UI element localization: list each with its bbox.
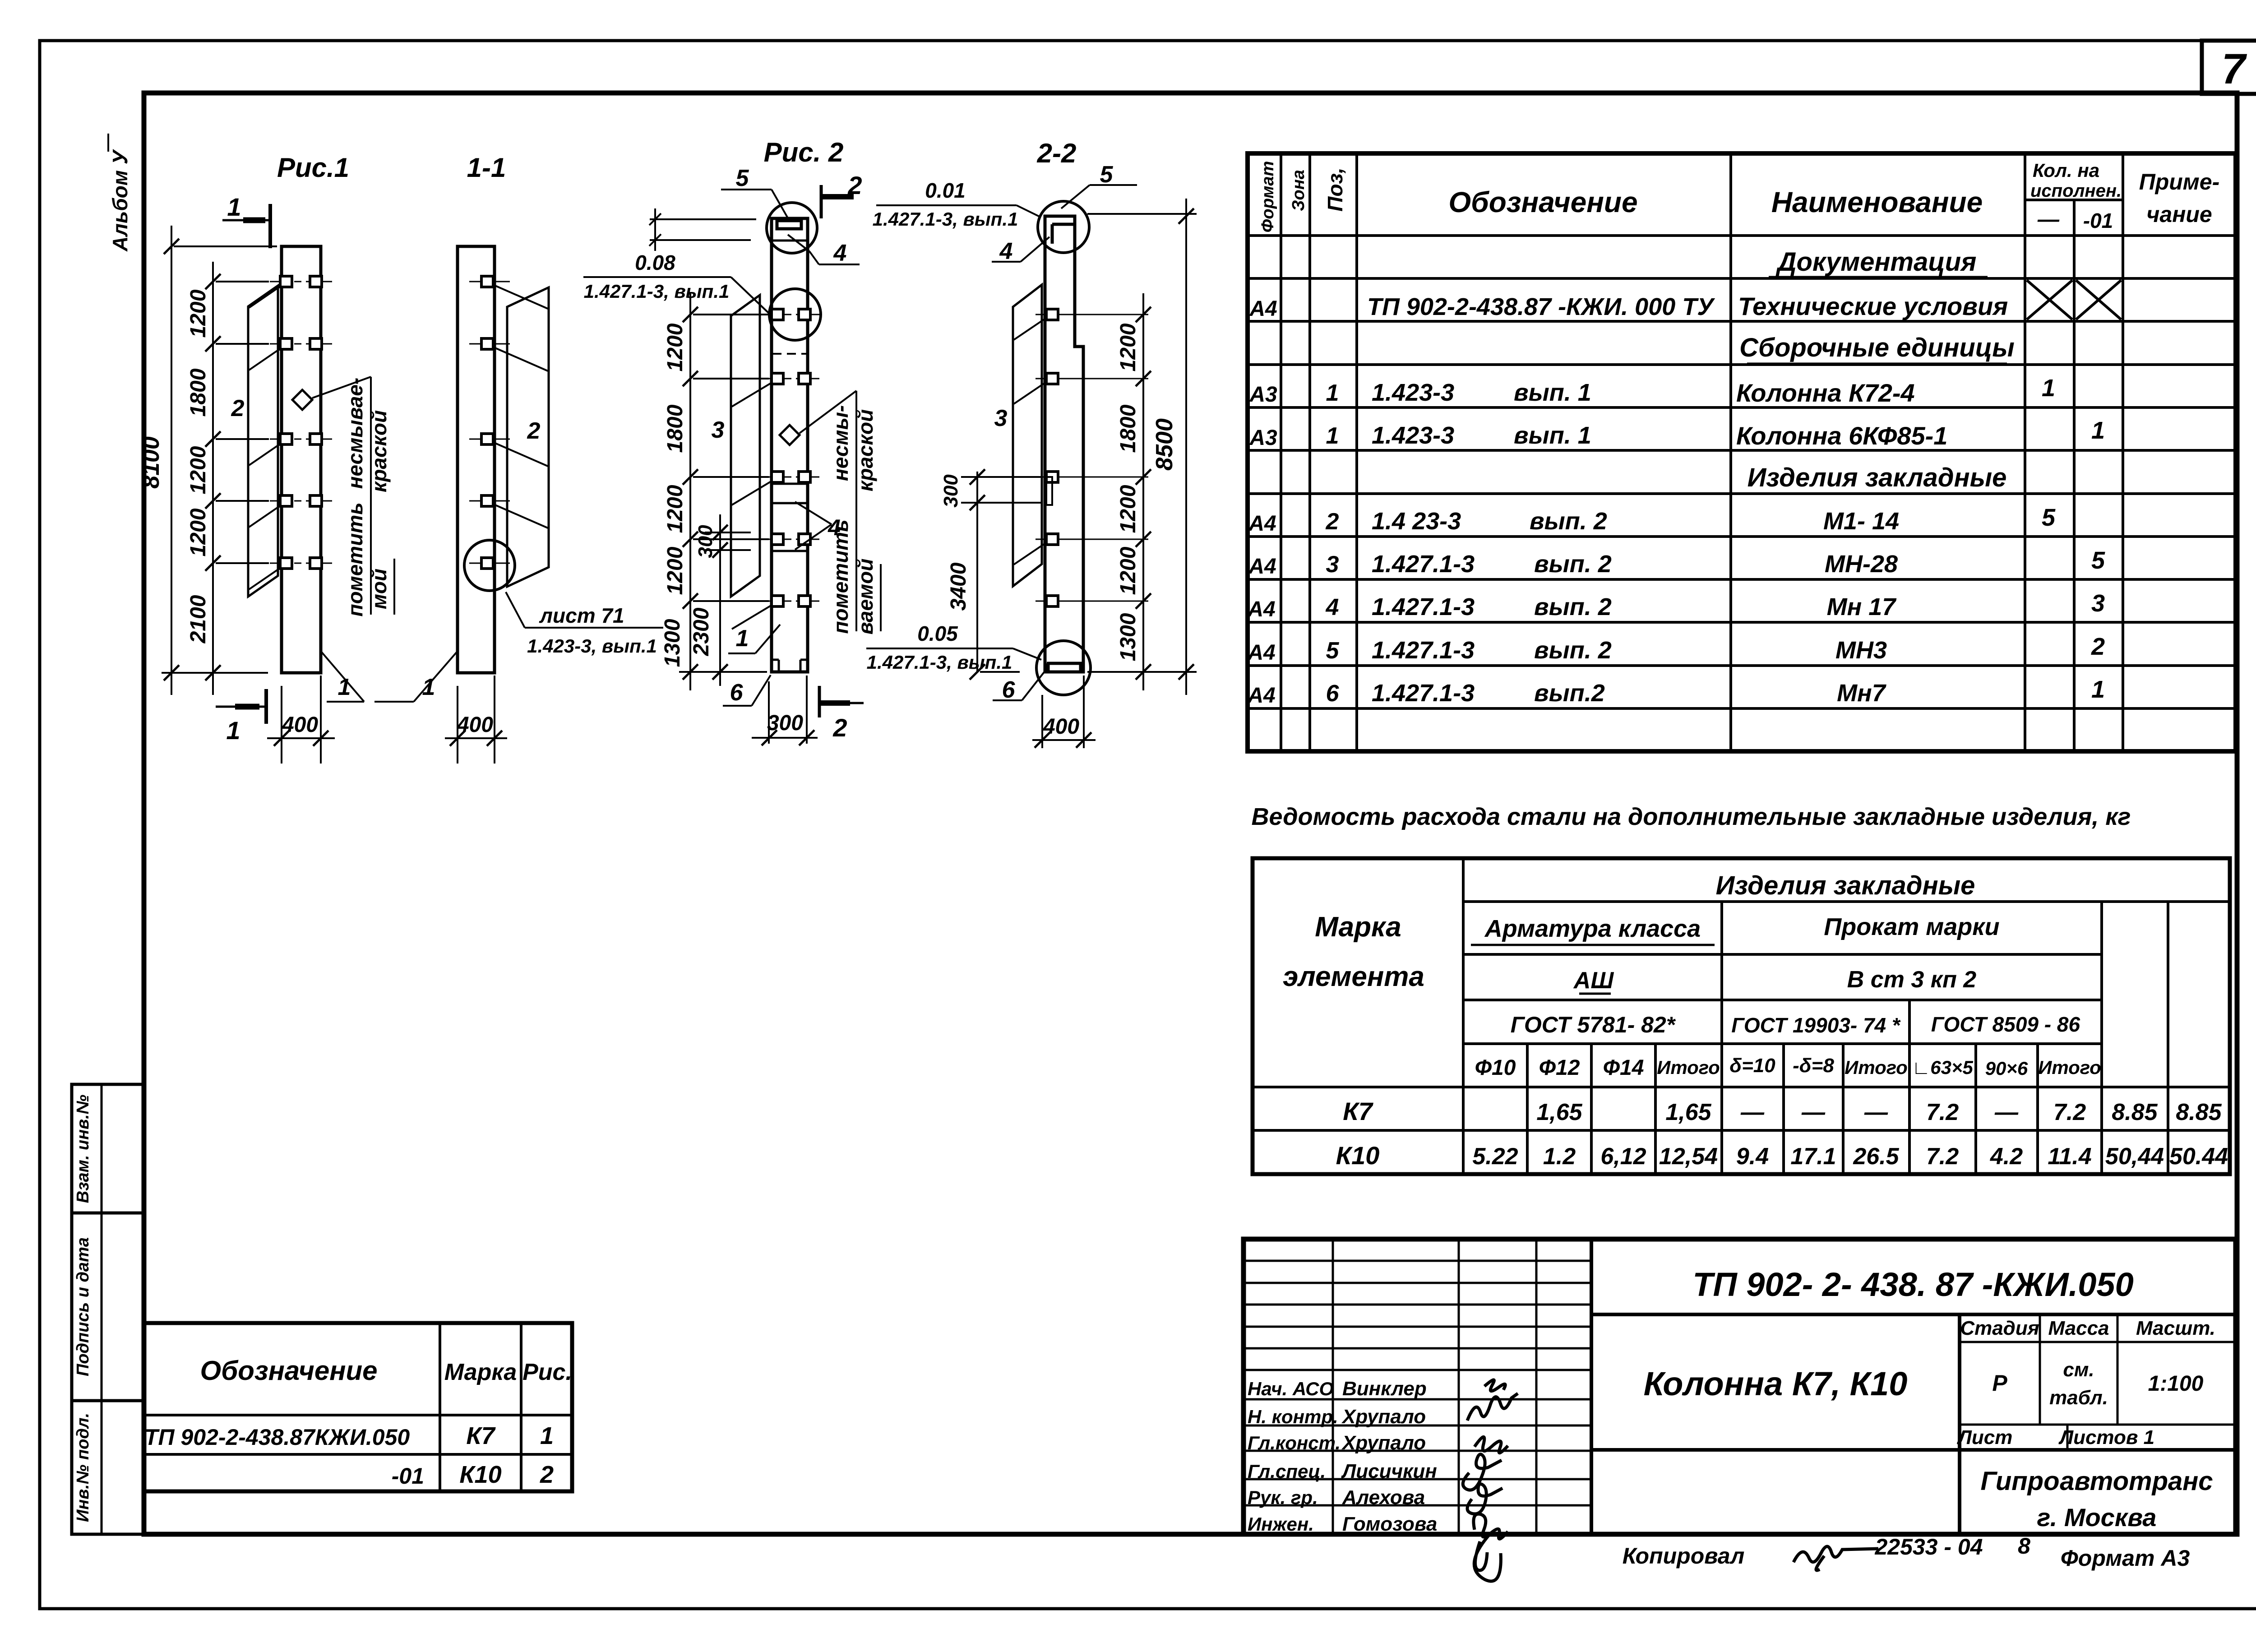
svg-text:∟63×5: ∟63×5: [1912, 1057, 1973, 1078]
svg-text:Гипроавтотранс: Гипроавтотранс: [1980, 1467, 2213, 1496]
svg-text:несмы-: несмы-: [829, 405, 852, 481]
svg-text:Лист: Лист: [1957, 1426, 2013, 1448]
svg-text:К7: К7: [1343, 1097, 1373, 1125]
svg-text:400: 400: [457, 713, 493, 737]
embed plate row 3 fig.2-2: [1036, 477, 1148, 478]
leader to strip (1-1): [494, 504, 548, 528]
tb row: [1244, 1504, 1591, 1507]
embed plate row 1 fig.2-2: [1036, 314, 1148, 315]
big flourish below stamp: [1474, 1535, 1501, 1581]
svg-text:5: 5: [1326, 638, 1340, 664]
tb row: [1244, 1326, 1591, 1328]
svg-text:вып. 1: вып. 1: [1514, 422, 1591, 449]
tb row: [1244, 1478, 1591, 1481]
underline note line1 fig.1: [370, 377, 372, 615]
svg-text:А4: А4: [1249, 297, 1277, 321]
plate bottom line fig.2: [772, 240, 807, 242]
embed plate row 5 fig.1-1: [469, 563, 510, 564]
svg-text:вып. 2: вып. 2: [1534, 593, 1612, 620]
signature 1: [1484, 1380, 1505, 1391]
svg-text:3: 3: [994, 405, 1008, 431]
embed plate row 1 fig.1: [270, 281, 289, 282]
embed plate row 3 fig.2: [760, 477, 779, 478]
svg-text:—: —: [1740, 1099, 1765, 1125]
spec row line: [1248, 535, 2236, 538]
svg-text:1:100: 1:100: [2148, 1372, 2204, 1396]
leader to strip (1-1): [494, 347, 548, 371]
svg-text:Инв.№ подл.: Инв.№ подл.: [74, 1413, 92, 1522]
spec row line: [1248, 492, 2236, 495]
svg-text:1.427.1-3: 1.427.1-3: [1372, 637, 1475, 664]
svg-text:2: 2: [2091, 633, 2105, 660]
signature 6: [1474, 1514, 1508, 1570]
sheet number box: [2202, 41, 2256, 94]
paint diamond fig.2: [780, 425, 800, 445]
dim 300 fig.2 bottom: [768, 681, 770, 744]
column outline (fig.1-1): [458, 246, 495, 673]
cross1: [2027, 280, 2072, 319]
detail circle fig.2 row1: [769, 289, 821, 340]
marking strip 2 fig.1: [248, 286, 278, 597]
leader label 1 bottom fig.1-1: [414, 651, 458, 702]
svg-text:9.4: 9.4: [1736, 1143, 1769, 1170]
svg-text:Рук. гр.: Рук. гр.: [1248, 1487, 1318, 1508]
svg-text:Хрупало: Хрупало: [1341, 1432, 1426, 1454]
leader to strip (fig.2): [732, 481, 772, 505]
spec col line: [2073, 200, 2076, 751]
svg-text:Мн7: Мн7: [1837, 680, 1887, 707]
svg-text:Колонна К72-4: Колонна К72-4: [1736, 379, 1915, 407]
svg-text:Хрупало: Хрупало: [1341, 1406, 1426, 1428]
embed plate row 2 fig.2-2: [1036, 378, 1148, 379]
svg-text:Альбом У: Альбом У: [108, 148, 132, 252]
svg-text:50.44: 50.44: [2169, 1143, 2228, 1170]
svg-text:Н. контр.: Н. контр.: [1248, 1406, 1338, 1427]
detail circle fig.2-2 bottom: [1036, 641, 1091, 695]
svg-text:5: 5: [1100, 162, 1114, 188]
marking strip 3 fig.2-2: [1013, 285, 1042, 586]
embed plate row 5 fig.2: [760, 601, 779, 602]
svg-text:1800: 1800: [1116, 404, 1140, 453]
svg-text:ТП 902- 2- 438. 87 -КЖИ.050: ТП 902- 2- 438. 87 -КЖИ.050: [1692, 1266, 2133, 1303]
leader to strip: [249, 286, 281, 308]
svg-text:26.5: 26.5: [1853, 1143, 1899, 1170]
leader to strip (1-1): [494, 443, 548, 466]
svg-text:АШ: АШ: [1573, 967, 1614, 994]
svg-text:ТП 902-2-438.87КЖИ.050: ТП 902-2-438.87КЖИ.050: [144, 1425, 410, 1450]
svg-text:1: 1: [1326, 423, 1339, 449]
svg-text:Рис. 2: Рис. 2: [764, 137, 844, 167]
svg-text:6: 6: [730, 680, 744, 706]
svg-text:8.85: 8.85: [2176, 1099, 2222, 1125]
svg-text:лист 71: лист 71: [539, 604, 624, 627]
svg-text:Взам. инв.№: Взам. инв.№: [74, 1095, 92, 1203]
svg-text:8: 8: [2018, 1533, 2030, 1559]
spec col line: [1308, 153, 1311, 751]
svg-text:ТП 902-2-438.87 -КЖИ. 000 ТУ: ТП 902-2-438.87 -КЖИ. 000 ТУ: [1367, 293, 1715, 320]
svg-text:1: 1: [227, 193, 241, 221]
tb row: [1244, 1425, 1591, 1427]
svg-text:чание: чание: [2146, 202, 2212, 227]
svg-text:5: 5: [2091, 547, 2105, 574]
left margin stamp boxes: [72, 1084, 144, 1213]
section mark 1 bottom: [216, 706, 265, 708]
svg-text:3: 3: [2091, 590, 2105, 617]
detail circle fig.1-1: [464, 540, 515, 591]
section mark 2 bottom: [818, 686, 821, 717]
svg-text:400: 400: [282, 713, 318, 737]
svg-text:1.427.1-3, вып.1: 1.427.1-3, вып.1: [873, 208, 1018, 230]
svg-text:2-2: 2-2: [1037, 138, 1077, 168]
svg-text:1,65: 1,65: [1665, 1099, 1711, 1125]
svg-text:Арматура класса: Арматура класса: [1484, 915, 1701, 942]
svg-text:Обозначение: Обозначение: [200, 1356, 377, 1386]
tb row: [1244, 1450, 1591, 1452]
specification table frame: [1248, 153, 2236, 751]
svg-text:2300: 2300: [689, 607, 713, 656]
svg-text:МН3: МН3: [1835, 637, 1887, 664]
copy signature: [1794, 1546, 1878, 1570]
svg-text:300: 300: [767, 711, 803, 735]
spec col line: [1280, 153, 1282, 751]
spec row line: [1248, 621, 2236, 624]
svg-text:1.2: 1.2: [1543, 1143, 1576, 1170]
svg-text:Нач. АСО: Нач. АСО: [1248, 1378, 1334, 1399]
svg-text:Гл.конст.: Гл.конст.: [1248, 1432, 1341, 1453]
svg-text:1.427.1-3: 1.427.1-3: [1372, 551, 1475, 578]
svg-text:2100: 2100: [186, 595, 210, 643]
svg-text:1: 1: [1326, 380, 1339, 406]
svg-text:—: —: [2037, 208, 2060, 231]
svg-text:1300: 1300: [1116, 613, 1140, 661]
svg-text:Изделия закладные: Изделия закладные: [1716, 871, 1975, 900]
signature 4: [1463, 1454, 1502, 1490]
top notch fig.2-2: [1052, 223, 1076, 226]
svg-text:7.2: 7.2: [1926, 1099, 1959, 1125]
svg-text:М1- 14: М1- 14: [1823, 508, 1899, 535]
spec col line: [2024, 153, 2026, 751]
tb divider right part: [1958, 1314, 1961, 1534]
tb row: [1244, 1347, 1591, 1350]
svg-text:Марка: Марка: [444, 1359, 517, 1385]
svg-text:5.22: 5.22: [1472, 1143, 1518, 1170]
svg-text:Наименование: Наименование: [1771, 186, 1983, 218]
marking strip 2 fig.1-1: [507, 287, 549, 587]
svg-text:Итого: Итого: [1657, 1057, 1720, 1078]
svg-text:17.1: 17.1: [1790, 1143, 1836, 1170]
svg-text:1800: 1800: [663, 404, 687, 453]
svg-text:Рис.1: Рис.1: [277, 153, 349, 183]
dim chain fig.2-2: [1142, 293, 1144, 690]
svg-text:1: 1: [226, 716, 240, 745]
svg-text:12,54: 12,54: [1659, 1143, 1718, 1170]
svg-text:8.85: 8.85: [2112, 1099, 2158, 1125]
svg-text:1200: 1200: [1116, 546, 1140, 595]
svg-text:1200: 1200: [1116, 485, 1140, 533]
svg-text:ГОСТ 19903- 74 *: ГОСТ 19903- 74 *: [1731, 1013, 1901, 1037]
svg-text:4: 4: [1326, 594, 1339, 620]
svg-text:Технические условия: Технические условия: [1738, 292, 2008, 320]
dim chain fig.2: [689, 293, 691, 690]
dim 400 fig.1: [281, 686, 282, 764]
svg-text:Ведомость расхода стали на: Ведомость расхода стали на дополнительны…: [1252, 803, 2131, 830]
svg-text:5: 5: [2042, 504, 2056, 531]
svg-text:табл.: табл.: [2049, 1387, 2108, 1409]
leader to strip (fig.2-2): [1014, 382, 1046, 404]
signature 2: [1467, 1393, 1518, 1421]
signature 3: [1475, 1437, 1508, 1453]
svg-text:Ф12: Ф12: [1539, 1056, 1580, 1080]
spec row line: [1248, 363, 2236, 366]
spec col line: [1729, 153, 1732, 751]
svg-text:1200: 1200: [663, 323, 687, 371]
spec col line: [1355, 153, 1358, 751]
tb row: [1244, 1260, 1591, 1262]
leader to strip (fig.2-2): [1014, 543, 1046, 565]
svg-text:1200: 1200: [663, 485, 687, 533]
svg-text:7.2: 7.2: [1926, 1143, 1959, 1170]
svg-text:2: 2: [832, 713, 847, 742]
svg-text:1: 1: [338, 674, 351, 700]
leader 0.08 to circle: [731, 277, 770, 314]
underline note line1 fig.2: [855, 391, 857, 631]
svg-text:А4: А4: [1247, 641, 1275, 665]
svg-text:Поз,: Поз,: [1323, 167, 1347, 211]
svg-text:Колонна 6КФ85-1: Колонна 6КФ85-1: [1736, 421, 1947, 450]
svg-text:2: 2: [527, 418, 541, 444]
leader from diamond fig.2: [800, 391, 856, 433]
svg-text:А3: А3: [1249, 426, 1277, 450]
svg-text:Документация: Документация: [1775, 247, 1977, 277]
svg-text:2: 2: [540, 1461, 554, 1488]
section mark 1 top: [222, 219, 272, 222]
mini chain fig.2 top: [654, 208, 656, 251]
hidden step line fig.2: [772, 353, 807, 355]
svg-text:Подпись и дата: Подпись и дата: [74, 1237, 92, 1376]
svg-text:В ст 3 кп 2: В ст 3 кп 2: [1847, 967, 1977, 993]
doc number cell: [1591, 1313, 2236, 1316]
svg-text:Итого: Итого: [1845, 1057, 1908, 1078]
svg-text:1.423-3: 1.423-3: [1372, 379, 1454, 406]
svg-text:Прокат марки: Прокат марки: [1824, 913, 1999, 940]
spec row line: [1248, 406, 2236, 409]
embed plate row 3 fig.1: [270, 439, 289, 440]
svg-text:300: 300: [694, 525, 717, 558]
embed plate row 4 fig.2-2: [1036, 539, 1148, 540]
svg-text:МН-28: МН-28: [1825, 551, 1898, 578]
svg-text:вып. 2: вып. 2: [1530, 508, 1607, 535]
cross2: [2076, 280, 2121, 319]
embed plate row 1 fig.1-1: [469, 281, 510, 282]
column K10 outline (fig.2): [772, 218, 808, 672]
svg-text:Кол. на: Кол. на: [2033, 160, 2099, 181]
spec row line: [1248, 664, 2236, 667]
embed plate row 2 fig.2: [760, 378, 779, 379]
svg-text:7: 7: [2222, 45, 2247, 93]
svg-text:1.427.1-3: 1.427.1-3: [1372, 680, 1475, 707]
svg-text:А4: А4: [1247, 684, 1275, 708]
embed plate row 4 fig.1-1: [469, 500, 510, 502]
tb col: [1332, 1239, 1334, 1534]
svg-text:Гомозова: Гомозова: [1342, 1513, 1437, 1535]
svg-text:2: 2: [1326, 509, 1339, 535]
spec row line: [1248, 449, 2236, 452]
embed plate row 4 fig.1: [270, 500, 289, 502]
svg-text:2: 2: [231, 395, 245, 421]
leader to note list71: [506, 592, 525, 628]
spec row line: [1248, 234, 2236, 237]
label 4 with leaders fig.2: [795, 502, 832, 524]
svg-text:400: 400: [1043, 715, 1079, 739]
dim 400 fig.2-2: [1041, 695, 1043, 748]
leader to strip: [249, 348, 281, 370]
underline note line2 fig.2: [880, 564, 882, 631]
svg-text:Ф14: Ф14: [1603, 1056, 1644, 1080]
svg-text:ГОСТ 5781- 82*: ГОСТ 5781- 82*: [1511, 1012, 1676, 1037]
svg-text:вып. 2: вып. 2: [1534, 637, 1612, 664]
dim chain fig.1: [212, 262, 214, 695]
svg-text:7.2: 7.2: [2053, 1099, 2086, 1125]
svg-text:Ф10: Ф10: [1475, 1056, 1516, 1080]
svg-text:элемента: элемента: [1283, 961, 1424, 992]
svg-text:4: 4: [833, 240, 847, 266]
svg-text:1.427.1-3, вып.1: 1.427.1-3, вып.1: [584, 281, 730, 302]
svg-text:1200: 1200: [1116, 323, 1140, 371]
leader to strip: [249, 505, 281, 527]
spec row line: [1248, 707, 2236, 710]
bottom corner notches fig.2: [772, 659, 779, 661]
svg-text:краской: краской: [367, 410, 391, 492]
svg-text:Изделия закладные: Изделия закладные: [1747, 463, 2007, 492]
svg-text:2: 2: [847, 171, 862, 199]
embed plate row 1 fig.2: [760, 314, 779, 315]
svg-text:вып.2: вып.2: [1534, 680, 1605, 707]
svg-text:Рис.: Рис.: [522, 1359, 572, 1385]
svg-text:1: 1: [540, 1422, 554, 1449]
svg-text:Лисичкин: Лисичкин: [1341, 1460, 1437, 1482]
title block frame: [1244, 1239, 2236, 1534]
spec subheader split: [2025, 199, 2123, 201]
svg-text:Стадия: Стадия: [1960, 1317, 2039, 1339]
svg-text:Формат: Формат: [1258, 161, 1277, 233]
svg-text:А4: А4: [1247, 597, 1275, 621]
svg-text:0.08: 0.08: [635, 251, 675, 274]
embed plate row 2 fig.1: [270, 343, 289, 345]
svg-text:1: 1: [2091, 417, 2105, 444]
dim 400 fig.1-1: [457, 686, 458, 764]
svg-text:6,12: 6,12: [1600, 1143, 1646, 1170]
leader to strip (fig.2-2): [1014, 318, 1046, 340]
embed plate row 5 fig.1: [270, 563, 289, 564]
svg-text:3400: 3400: [947, 562, 971, 611]
top recess plate fig.2: [777, 221, 801, 229]
leader to strip (1-1): [494, 285, 548, 309]
svg-text:-01: -01: [392, 1463, 424, 1489]
svg-text:1.427.1-3: 1.427.1-3: [1372, 593, 1475, 620]
svg-text:1: 1: [422, 674, 435, 700]
svg-text:А4: А4: [1248, 555, 1276, 578]
svg-text:1200: 1200: [186, 289, 210, 338]
note fraction bar: [525, 627, 663, 629]
overline over U: [107, 134, 109, 152]
svg-text:1.4 23-3: 1.4 23-3: [1372, 508, 1461, 535]
column K7 outline (fig.1): [282, 246, 321, 673]
ext line recess top: [650, 218, 756, 220]
svg-text:—: —: [1864, 1099, 1888, 1125]
svg-text:4.2: 4.2: [1990, 1143, 2023, 1170]
svg-text:0.01: 0.01: [925, 179, 966, 202]
svg-text:8500: 8500: [1151, 418, 1178, 471]
signature 5: [1467, 1484, 1502, 1514]
svg-text:δ=10: δ=10: [1729, 1055, 1775, 1077]
aux chain 300/2300 fig.2: [719, 514, 721, 686]
leader to strip (fig.2): [732, 605, 772, 629]
tb row: [1244, 1304, 1591, 1306]
spec row line: [1248, 277, 2236, 280]
svg-text:1200: 1200: [186, 508, 210, 556]
tb row: [1244, 1282, 1591, 1284]
svg-text:3: 3: [712, 417, 725, 443]
section mark 2 top: [820, 185, 823, 218]
ext line recess bottom: [650, 239, 751, 241]
svg-text:несмывае-: несмывае-: [343, 378, 367, 489]
tb row: [1244, 1369, 1591, 1371]
spec row line: [1248, 320, 2236, 323]
paint diamond fig.1: [292, 390, 312, 410]
svg-text:1200: 1200: [663, 546, 687, 595]
svg-text:пометить: пометить: [343, 502, 367, 616]
leader to strip: [249, 444, 281, 465]
marking strip 3 fig.2: [731, 295, 760, 597]
niche fig.2-2: [1046, 477, 1052, 505]
svg-text:0.05: 0.05: [917, 622, 958, 645]
leader from diamond: [312, 377, 371, 398]
svg-text:Марка: Марка: [1315, 912, 1401, 943]
svg-text:Сборочные единицы: Сборочные единицы: [1739, 333, 2015, 362]
svg-text:краской: краской: [854, 409, 877, 491]
svg-text:вып. 1: вып. 1: [1514, 379, 1591, 406]
bottom-left marks table: [144, 1323, 572, 1491]
svg-text:Гл.спец.: Гл.спец.: [1248, 1461, 1326, 1482]
svg-text:—: —: [1801, 1099, 1826, 1125]
svg-text:Винклер: Винклер: [1342, 1378, 1427, 1400]
svg-text:ГОСТ 8509 - 86: ГОСТ 8509 - 86: [1931, 1013, 2080, 1036]
svg-text:Обозначение: Обозначение: [1448, 186, 1637, 218]
svg-text:-01: -01: [2083, 209, 2113, 232]
svg-text:Р: Р: [1992, 1370, 2007, 1396]
embed plate row 4 fig.2: [760, 539, 779, 540]
leader to strip (fig.2): [732, 382, 772, 407]
tb row: [1244, 1398, 1591, 1401]
niche plates fig.2: [772, 483, 807, 485]
embed plate row 5 fig.2-2: [1036, 601, 1148, 602]
svg-text:22533 - 04: 22533 - 04: [1874, 1534, 1983, 1559]
svg-text:1,65: 1,65: [1536, 1099, 1582, 1125]
svg-text:1800: 1800: [186, 368, 210, 416]
svg-text:3: 3: [1326, 551, 1339, 578]
svg-text:1.423-3: 1.423-3: [1372, 422, 1454, 449]
column outline (fig.2-2): [1045, 216, 1083, 672]
spec row line: [1248, 578, 2236, 581]
svg-text:Мн 17: Мн 17: [1827, 593, 1897, 620]
svg-text:исполнен.: исполнен.: [2030, 181, 2122, 201]
svg-text:1200: 1200: [186, 446, 210, 494]
svg-text:6: 6: [1002, 677, 1016, 703]
svg-text:К10: К10: [1336, 1141, 1380, 1170]
svg-text:1.427.1-3, вып.1: 1.427.1-3, вып.1: [867, 652, 1012, 673]
svg-text:А3: А3: [1249, 383, 1277, 407]
svg-text:Зона: Зона: [1289, 170, 1308, 211]
